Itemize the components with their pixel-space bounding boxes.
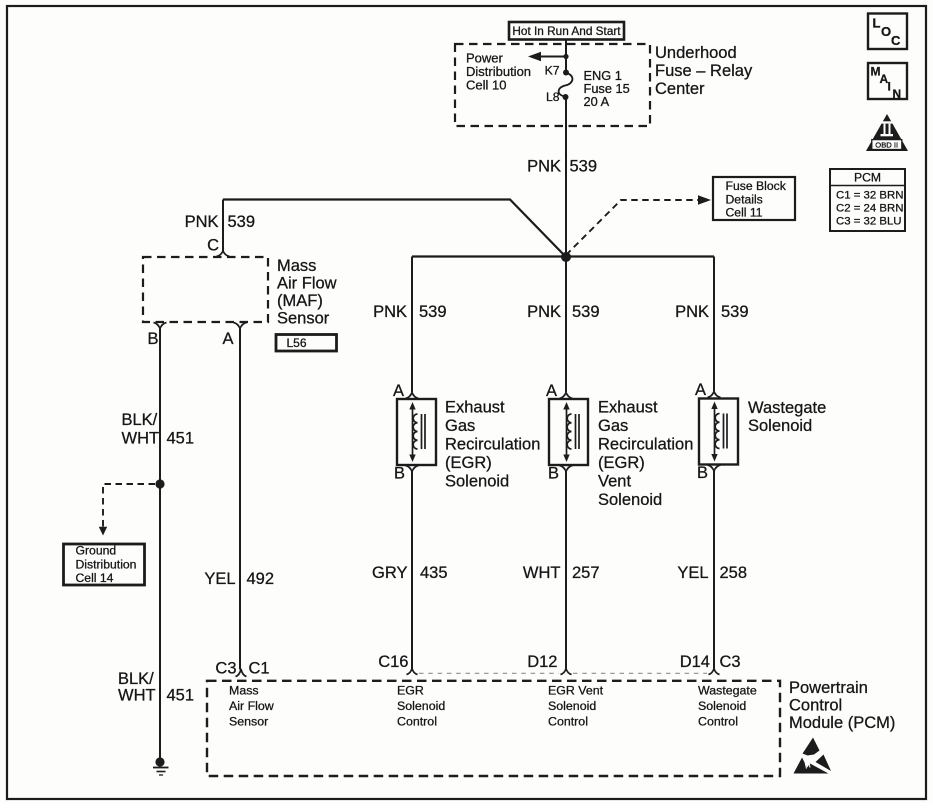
- svg-text:B: B: [697, 464, 708, 482]
- svg-text:20 A: 20 A: [584, 94, 610, 109]
- svg-text:WHT: WHT: [523, 564, 561, 582]
- splice node to ground distribution: [155, 479, 164, 488]
- ESD sensitivity symbol: [794, 738, 832, 774]
- svg-text:Sensor: Sensor: [277, 310, 330, 328]
- svg-text:451: 451: [167, 687, 195, 705]
- label EGR Solenoid Control (inside PCM): [397, 684, 445, 729]
- svg-text:Gas: Gas: [598, 417, 628, 435]
- solenoid L-EGR coil box: [397, 399, 436, 465]
- svg-text:539: 539: [572, 303, 600, 321]
- label BLK/WHT 451 (upper): [122, 411, 195, 448]
- ground distribution callout box: [64, 544, 145, 586]
- svg-text:451: 451: [167, 430, 195, 448]
- svg-text:PNK: PNK: [675, 303, 709, 321]
- label Mass Air Flow Sensor (inside PCM): [229, 684, 274, 729]
- svg-text:WHT: WHT: [122, 430, 160, 448]
- svg-text:C1 = 32 BRN: C1 = 32 BRN: [836, 190, 903, 202]
- svg-text:Mass: Mass: [277, 257, 316, 275]
- svg-text:Control: Control: [548, 715, 588, 729]
- label GRY 435: [372, 564, 448, 582]
- svg-text:D12: D12: [527, 653, 557, 671]
- underhood fuse-relay center dashed box: [455, 44, 650, 126]
- connector face dashed line D12 to D14: [573, 672, 707, 674]
- svg-text:258: 258: [720, 564, 748, 582]
- svg-text:C3: C3: [720, 653, 741, 671]
- svg-text:Fuse Block: Fuse Block: [726, 179, 787, 193]
- wire to MAF: horizontal run and diagonal into junction: [223, 200, 566, 258]
- wire BLK/WHT 451 from MAF B down: [159, 329, 161, 759]
- svg-text:B: B: [548, 465, 559, 483]
- wire YEL 258 down to PCM: [713, 471, 715, 669]
- svg-text:Mass: Mass: [229, 684, 259, 698]
- svg-text:N: N: [893, 87, 902, 101]
- svg-text:Vent: Vent: [598, 473, 631, 491]
- svg-text:Details: Details: [726, 193, 763, 207]
- terminal hook D12: [561, 669, 572, 675]
- terminal hook A: [560, 393, 573, 399]
- MAIN badge: [868, 63, 907, 101]
- LOC badge: [868, 14, 907, 50]
- svg-text:EGR: EGR: [397, 684, 424, 698]
- label Exhaust Gas Recirculation (EGR) Solenoid: [445, 399, 540, 491]
- solenoid L-wastegate coil box: [699, 399, 738, 465]
- svg-text:C2 = 24 BRN: C2 = 24 BRN: [836, 203, 903, 215]
- ground G101: [153, 757, 169, 775]
- svg-text:Fuse – Relay: Fuse – Relay: [655, 62, 753, 80]
- junction node (PNK 539 splice): [561, 252, 571, 262]
- svg-text:PNK: PNK: [373, 303, 407, 321]
- fuse value label ENG 1 / Fuse 15 / 20 A: [584, 68, 630, 109]
- hot bus label box "Hot In Run And Start": [509, 22, 624, 40]
- svg-text:(MAF): (MAF): [277, 292, 323, 310]
- svg-text:C3 = 32 BLU: C3 = 32 BLU: [836, 216, 902, 228]
- terminal hook A: [406, 393, 419, 399]
- svg-text:B: B: [394, 465, 405, 483]
- solenoid L-EGR-vent coil box: [549, 399, 588, 465]
- svg-text:Air Flow: Air Flow: [277, 275, 337, 293]
- label Mass Air Flow (MAF) Sensor: [277, 257, 337, 328]
- MAF sensor dashed box: [143, 257, 268, 322]
- fuse ENG 1 Fuse 15 20 A: [559, 70, 573, 101]
- svg-text:Solenoid: Solenoid: [445, 473, 509, 491]
- svg-text:GRY: GRY: [372, 564, 407, 582]
- svg-text:Control: Control: [789, 697, 842, 715]
- terminal hook D14: [709, 669, 720, 675]
- svg-text:539: 539: [419, 303, 447, 321]
- connector label L56 box: [276, 335, 337, 352]
- wire from Hot box into fuse box: [565, 39, 567, 72]
- svg-text:(EGR): (EGR): [598, 454, 645, 472]
- wire PNK 539 branch 2: [565, 257, 567, 393]
- svg-text:YEL: YEL: [204, 570, 235, 588]
- svg-text:C3: C3: [215, 660, 236, 678]
- svg-text:K7: K7: [545, 64, 560, 78]
- svg-text:539: 539: [228, 213, 256, 231]
- terminal hook B: [406, 466, 419, 472]
- wire PNK 539 from fuse down to junction: [565, 97, 567, 257]
- label Exhaust Gas Recirculation (EGR) Vent Solenoid: [598, 399, 693, 510]
- svg-text:PCM: PCM: [854, 171, 881, 185]
- wire PNK 539 branch 1: [411, 257, 413, 393]
- svg-text:492: 492: [247, 570, 275, 588]
- svg-text:BLK/: BLK/: [122, 411, 158, 429]
- label PNK 539 (branch 3): [675, 303, 748, 321]
- svg-text:WHT: WHT: [118, 687, 156, 705]
- terminal hook A: [708, 392, 721, 398]
- svg-text:L56: L56: [287, 336, 307, 350]
- label Wastegate Solenoid Control (inside PCM): [698, 684, 757, 729]
- svg-text:Underhood: Underhood: [655, 44, 737, 62]
- label EGR Vent Solenoid Control (inside PCM): [548, 684, 604, 729]
- svg-text:Exhaust: Exhaust: [445, 399, 505, 417]
- terminal hook A: [234, 323, 247, 329]
- svg-text:YEL: YEL: [677, 564, 708, 582]
- svg-text:A: A: [393, 382, 404, 400]
- terminal hook C3/C1: [236, 669, 247, 677]
- label PNK 539 (branch 1): [373, 303, 446, 321]
- svg-text:Solenoid: Solenoid: [698, 699, 746, 713]
- terminal hook B: [560, 466, 573, 472]
- svg-text:Solenoid: Solenoid: [598, 491, 662, 509]
- svg-text:539: 539: [721, 303, 749, 321]
- svg-text:C: C: [207, 237, 219, 255]
- fuse block details callout box: [713, 177, 795, 220]
- svg-text:(EGR): (EGR): [445, 454, 492, 472]
- terminal hook C16: [407, 669, 418, 675]
- label Wastegate Solenoid: [748, 399, 826, 435]
- svg-text:Wastegate: Wastegate: [698, 684, 757, 698]
- svg-text:435: 435: [420, 564, 448, 582]
- svg-text:C1: C1: [249, 660, 270, 678]
- svg-text:Solenoid: Solenoid: [548, 699, 596, 713]
- label Powertrain Control Module (PCM): [789, 679, 895, 732]
- svg-text:Exhaust: Exhaust: [598, 399, 658, 417]
- svg-text:539: 539: [570, 158, 598, 176]
- wire YEL 492 from MAF A down to PCM: [239, 329, 241, 670]
- label Underhood Fuse - Relay Center: [655, 44, 753, 98]
- svg-text:L: L: [873, 16, 881, 31]
- svg-text:Sensor: Sensor: [229, 715, 268, 729]
- svg-text:Solenoid: Solenoid: [748, 417, 812, 435]
- connector face dashed line C16 to D12: [419, 672, 559, 674]
- svg-text:A: A: [546, 382, 557, 400]
- dashed wire to ground distribution: [103, 484, 155, 528]
- PCM connector legend box: [830, 169, 905, 231]
- svg-text:Control: Control: [698, 715, 738, 729]
- svg-text:Cell 14: Cell 14: [76, 571, 114, 585]
- bus wire across three solenoid branches: [412, 255, 714, 257]
- svg-text:Recirculation: Recirculation: [598, 436, 693, 454]
- svg-text:BLK/: BLK/: [118, 670, 154, 688]
- svg-text:Wastegate: Wastegate: [748, 399, 826, 417]
- svg-text:Hot In Run And Start: Hot In Run And Start: [512, 24, 621, 38]
- svg-text:PNK: PNK: [185, 213, 219, 231]
- PCM dashed box: [207, 681, 780, 776]
- svg-text:PNK: PNK: [527, 303, 561, 321]
- svg-text:Ground: Ground: [76, 544, 117, 558]
- terminal hook B: [708, 465, 721, 471]
- svg-text:Control: Control: [397, 715, 437, 729]
- dashed arrow to fuse block details: [566, 195, 711, 255]
- svg-text:I: I: [888, 80, 891, 94]
- svg-text:PNK: PNK: [527, 158, 561, 176]
- wire GRY 435 down to PCM: [411, 472, 413, 670]
- svg-text:C16: C16: [378, 653, 408, 671]
- label Power Distribution Cell 10: [466, 51, 531, 93]
- pin D14 / C3: [680, 653, 741, 671]
- svg-text:A: A: [222, 330, 233, 348]
- arrow to power distribution: [528, 52, 569, 61]
- svg-text:Module (PCM): Module (PCM): [789, 714, 895, 732]
- svg-text:Gas: Gas: [445, 417, 475, 435]
- svg-text:257: 257: [572, 564, 600, 582]
- terminal hook C: [217, 251, 230, 257]
- label WHT 257: [523, 564, 600, 582]
- svg-text:O: O: [881, 24, 891, 39]
- terminal hook B: [154, 323, 167, 329]
- svg-text:Solenoid: Solenoid: [397, 699, 445, 713]
- label BLK/WHT 451 (lower): [118, 670, 194, 705]
- svg-text:Cell 11: Cell 11: [726, 206, 763, 220]
- wire C drop into MAF: [222, 200, 224, 252]
- svg-text:Powertrain: Powertrain: [789, 679, 868, 697]
- svg-text:Distribution: Distribution: [76, 558, 137, 572]
- label YEL 258: [677, 564, 747, 582]
- svg-text:A: A: [695, 381, 706, 399]
- OBD II triangle badge: [866, 114, 908, 151]
- svg-text:B: B: [147, 330, 158, 348]
- label PNK 539 (MAF branch): [185, 213, 255, 231]
- svg-text:Air Flow: Air Flow: [229, 699, 274, 713]
- label PNK 539 (top): [527, 158, 597, 176]
- svg-text:EGR Vent: EGR Vent: [548, 684, 604, 698]
- svg-text:Center: Center: [655, 80, 705, 98]
- pin C3 / C1: [215, 660, 269, 678]
- wire WHT 257 down to PCM: [565, 472, 567, 670]
- svg-text:Cell 10: Cell 10: [466, 78, 506, 93]
- svg-text:OBD II: OBD II: [875, 141, 898, 150]
- label YEL 492: [204, 570, 274, 588]
- svg-text:D14: D14: [680, 653, 710, 671]
- svg-text:L8: L8: [546, 90, 560, 104]
- label PNK 539 (branch 2): [527, 303, 599, 321]
- wire PNK 539 branch 3: [713, 257, 715, 392]
- svg-text:Recirculation: Recirculation: [445, 436, 540, 454]
- svg-text:C: C: [891, 33, 901, 48]
